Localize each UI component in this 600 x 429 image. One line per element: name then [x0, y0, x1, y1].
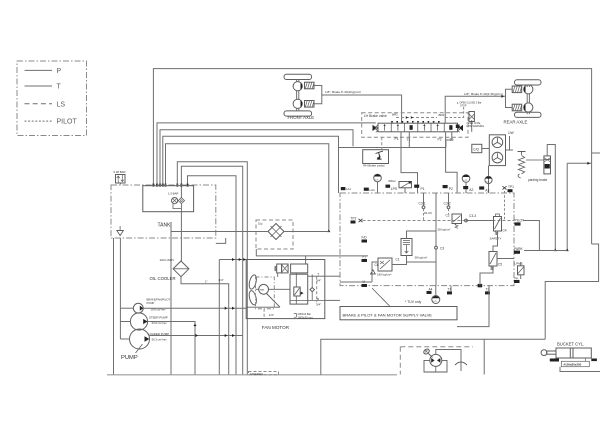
wire PARK line: [524, 250, 567, 252]
junction arrow rear brake: [501, 95, 504, 98]
brake valve left spring: [376, 125, 378, 132]
accumulator ACC3: [485, 176, 492, 183]
brake valve spool body: [378, 123, 458, 132]
wire tank suction lines: [113, 238, 115, 375]
steering box cropped: [249, 372, 279, 375]
motor circle 2: [492, 152, 503, 163]
svg-text:C/Q: C/Q: [473, 148, 479, 152]
svg-text:T1: T1: [407, 138, 411, 142]
fan inner dashed vertical: [316, 276, 318, 302]
junction arrow nested4: [327, 230, 330, 233]
hand pump dashed box top: [400, 346, 473, 348]
wire PK stubs: [520, 262, 522, 266]
svg-text:1/W: 1/W: [508, 131, 514, 135]
svg-text:#150x80x300: #150x80x300: [564, 363, 582, 367]
wire rear brake line: [506, 89, 513, 107]
wire nested 1: [157, 123, 376, 184]
hand pump handle: [423, 348, 430, 355]
svg-text:A3: A3: [485, 188, 489, 192]
svg-text:PK: PK: [515, 276, 519, 280]
fan pilot box: [291, 264, 308, 273]
wire motor to parking brake: [506, 149, 514, 151]
wire C1 area: [407, 231, 437, 239]
wire nested right 5: [177, 162, 247, 375]
svg-text:0.75: 0.75: [375, 180, 379, 182]
svg-text:C1: C1: [396, 258, 400, 262]
accumulator ACC1: [374, 174, 382, 182]
svg-text:LPS: LPS: [391, 187, 398, 191]
svg-text:F/D: F/D: [362, 236, 368, 240]
svg-text:BR1: BR1: [392, 113, 398, 117]
svg-text:C2: C2: [446, 214, 450, 218]
wire sensor stub: [471, 120, 473, 132]
motor circle 1: [492, 137, 503, 148]
fan motor circle: [259, 284, 269, 294]
svg-text:TANK: TANK: [158, 223, 172, 229]
svg-text:0.75: 0.75: [486, 182, 490, 184]
wire PILOT to right: [523, 221, 539, 251]
bucket cyl rod: [547, 351, 556, 354]
T-line horizontal: [339, 147, 446, 149]
wire steer pump pressure: [148, 322, 195, 375]
fan check diamond: [310, 288, 314, 292]
wire main top loop: [153, 69, 591, 244]
svg-text:P2: P2: [449, 187, 453, 191]
wire left ports: [256, 249, 368, 256]
legend P line: [25, 69, 53, 71]
port TP1: [503, 186, 507, 189]
accumulator ACC2: [462, 175, 470, 183]
return filter diamond: [268, 224, 284, 240]
wire oil cooler out: [181, 277, 229, 375]
svg-text:BR2: BR2: [439, 113, 445, 117]
wire A3 motor to port: [488, 166, 490, 193]
pedal symbol: [376, 151, 384, 159]
pump steer: [130, 313, 147, 330]
wire filter drop: [170, 232, 172, 375]
supply valve boundary box: [340, 193, 514, 286]
hand pump body lines: [424, 360, 447, 372]
svg-text:1.5 BAR: 1.5 BAR: [168, 192, 178, 196]
svg-text:38 kg/cm²: 38 kg/cm²: [415, 256, 428, 260]
pilot dash line TP2 to PILOT: [363, 220, 515, 222]
svg-text:LOW WARNING: LOW WARNING: [467, 125, 485, 128]
svg-text:LH Brake valve: LH Brake valve: [364, 114, 387, 118]
hand pump top wire: [436, 350, 461, 356]
svg-text:TP2: TP2: [351, 217, 357, 221]
fan solenoid valve: [277, 264, 282, 273]
wire nested right 6: [181, 166, 242, 374]
fan valve box: [290, 274, 308, 304]
tank inner box: [143, 186, 194, 212]
pilot dash line BR1-BR2: [396, 117, 437, 119]
parking brake symbol: [518, 152, 526, 155]
wire fan pilot feed: [305, 256, 307, 264]
legend T line: [25, 85, 53, 87]
svg-text:PILOT: PILOT: [515, 219, 525, 223]
port A3: [479, 186, 484, 189]
svg-text:1": 1": [205, 280, 208, 284]
svg-text:#4.0X: #4.0X: [424, 211, 432, 215]
svg-text:PILOT: PILOT: [57, 119, 78, 126]
svg-text:BRAKE & PILOT & FAN MOTOR SUPP: BRAKE & PILOT & FAN MOTOR SUPPLY VALVE: [343, 312, 433, 317]
dash line to sensor: [463, 107, 465, 118]
svg-text:56.3 cm³/rev: 56.3 cm³/rev: [152, 338, 168, 342]
legend LS line: [25, 103, 53, 105]
bucket cyl bottom wires: [560, 367, 600, 372]
svg-text:1800±50 rpm: 1800±50 rpm: [298, 315, 313, 319]
wire right edge branch: [545, 244, 598, 339]
wire tank to oil cooler: [180, 212, 182, 261]
svg-text:C3-1: C3-1: [419, 202, 426, 206]
svg-text:C3-3: C3-3: [469, 214, 476, 218]
svg-text:0.75: 0.75: [463, 180, 467, 182]
pump loader: [130, 329, 150, 349]
parking brake cylinder: [544, 156, 551, 174]
junction arrows fan feed: [232, 258, 235, 261]
tank corner hook: [216, 238, 226, 243]
brake valve right spring: [458, 125, 460, 132]
svg-text:C6: C6: [375, 263, 379, 267]
wire C5 connections: [493, 231, 498, 252]
svg-text:1/4": 1/4": [269, 313, 274, 317]
oil cooler diamond: [173, 261, 189, 277]
wire parking brake up: [547, 145, 555, 251]
port PRSRLA1: [364, 188, 369, 191]
svg-text:28 kg/cm²: 28 kg/cm²: [438, 228, 451, 232]
svg-text:FAN: FAN: [260, 289, 265, 292]
port C3: [435, 246, 438, 249]
svg-text:TP1: TP1: [508, 185, 514, 189]
svg-text:STEERING: STEERING: [250, 372, 263, 376]
svg-text:FRONT AXLE: FRONT AXLE: [288, 115, 315, 120]
wire motor area loop: [567, 162, 591, 164]
wire BV P2 down: [446, 132, 458, 193]
svg-text:LA1: LA1: [370, 188, 376, 192]
svg-text:C4: C4: [503, 229, 507, 233]
relief valve C1: [401, 239, 412, 256]
wire BV P1 down: [401, 132, 418, 193]
wire nested 4: [166, 144, 329, 232]
pilot line pedal to valve: [381, 137, 383, 149]
svg-text:STEER PUMP: STEER PUMP: [149, 316, 168, 320]
legend PILOT line: [25, 120, 53, 122]
svg-text:T: T: [57, 84, 62, 91]
PK valve: [518, 266, 525, 275]
front axle group: [284, 74, 314, 120]
LH brake valve box: [362, 113, 468, 138]
wire T2 return: [457, 286, 489, 327]
port P2: [443, 185, 448, 188]
fan blades: [248, 274, 258, 290]
drive motor box: [489, 135, 505, 166]
valve C5: [489, 252, 497, 267]
svg-text:parking brake: parking brake: [528, 178, 548, 182]
valve C6: [378, 258, 392, 271]
legend box: [17, 61, 87, 136]
svg-text:PARK: PARK: [514, 247, 524, 251]
svg-text:P1: P1: [395, 137, 399, 141]
svg-text:LS: LS: [57, 101, 66, 108]
svg-text:C3: C3: [440, 247, 444, 251]
svg-text:3/4": 3/4": [219, 278, 224, 282]
svg-text:A2: A2: [469, 188, 473, 192]
svg-text:A4: A4: [429, 288, 433, 292]
tank vent triangle: [117, 231, 124, 236]
svg-text:10μ: 10μ: [258, 222, 263, 226]
wire BV T1 to T-line: [408, 132, 410, 148]
svg-text:1/8", Brake P-40(1Kg)/cm²: 1/8", Brake P-40(1Kg)/cm²: [325, 90, 361, 94]
wire loader pump pressure: [150, 335, 243, 337]
svg-text:REAR AXLE: REAR AXLE: [504, 120, 528, 125]
wire pilot pump pressure: [143, 307, 246, 309]
supply valve title box: [340, 307, 457, 320]
wire front brake line: [314, 86, 322, 104]
svg-text:1/8", Brake P-40(2.3Kg)/cm²: 1/8", Brake P-40(2.3Kg)/cm²: [464, 92, 503, 96]
bottom boundary line: [107, 374, 397, 376]
tank boundary dash-dot: [111, 185, 216, 238]
svg-text:180 kg/cm²: 180 kg/cm²: [377, 272, 391, 276]
fan assembly outer box: [246, 260, 325, 319]
svg-text:RH Brake pedal: RH Brake pedal: [363, 164, 385, 168]
pump small brake/fan/pilot: [133, 303, 143, 313]
RH brake pedal box: [363, 150, 389, 164]
wire right edge stub: [592, 152, 600, 154]
fan relief valve: [294, 287, 300, 296]
svg-text:OIL COOLER: OIL COOLER: [150, 276, 176, 281]
svg-text:C3-2: C3-2: [444, 202, 451, 206]
wire fan feed line: [219, 259, 246, 261]
svg-text:LA1: LA1: [346, 187, 351, 191]
tank top junction ticks: [153, 184, 155, 187]
wire BV T2 jog: [446, 132, 452, 148]
port A2: [463, 186, 468, 189]
svg-text:P1: P1: [421, 187, 425, 191]
wire C3-3 to C4: [466, 220, 494, 222]
fan specs: [294, 313, 297, 317]
check symbol: [455, 362, 467, 365]
return filter dashed box: [256, 220, 293, 249]
svg-text:P2: P2: [438, 138, 442, 142]
bottom big box: [321, 339, 545, 374]
wire pump suctions: [120, 307, 133, 309]
emergency hand pump: [430, 354, 442, 366]
svg-text:3/4": 3/4": [316, 279, 321, 283]
wire fan internals: [269, 288, 291, 290]
svg-text:3/4": 3/4": [316, 302, 321, 306]
wire nested 2 T-return: [160, 130, 353, 184]
svg-text:LPMS: LPMS: [515, 261, 523, 265]
svg-text:SAFETY: SAFETY: [490, 236, 502, 240]
svg-text:* TUV only: * TUV only: [405, 300, 421, 304]
svg-text:PUMP: PUMP: [121, 355, 138, 361]
svg-text:100 L/MIN: 100 L/MIN: [160, 258, 174, 262]
fan drain diagonal: [267, 294, 281, 308]
C/Q box: [472, 144, 482, 152]
safety valve C4: [494, 217, 502, 232]
svg-text:BUCKET CYL.: BUCKET CYL.: [557, 342, 584, 347]
wire filter line: [171, 231, 268, 233]
wire fan feed drop: [218, 260, 220, 375]
bucket cyl labels: [550, 359, 559, 362]
title pointer line: [372, 288, 390, 307]
1.5 bar valve bracket: [173, 204, 181, 212]
wire fan to supply valve: [325, 275, 340, 277]
svg-text:FAN MOTOR: FAN MOTOR: [262, 325, 290, 330]
wire nested 3: [163, 136, 339, 193]
svg-text:80bar: 80bar: [389, 179, 396, 183]
svg-text:C5: C5: [498, 263, 502, 267]
wire nested right 7: [188, 176, 237, 375]
port P1: [414, 185, 419, 188]
rear axle group: [504, 80, 542, 125]
fan motor dash-dot boundary: [256, 277, 275, 309]
svg-text:0.48 BAR: 0.48 BAR: [114, 170, 126, 174]
svg-text:PUMP: PUMP: [147, 301, 155, 305]
wire center vertical to A4: [435, 193, 437, 246]
svg-text:P: P: [57, 68, 62, 75]
